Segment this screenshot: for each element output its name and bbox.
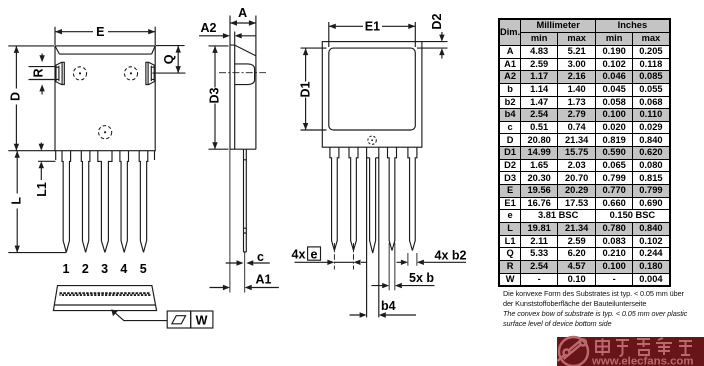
dimension 4x b2 line with arrows [397, 261, 467, 263]
dimension D3 line with arrows [214, 46, 216, 149]
front view pin 5 [139, 151, 148, 253]
dimension table [498, 18, 671, 287]
dimension L1 arrows [40, 143, 42, 181]
front view right mounting tab [146, 62, 154, 84]
back view pin 1 [330, 147, 339, 250]
back view pin 5 [408, 147, 417, 250]
front view top inner edge [55, 46, 155, 54]
back view bottom hole (dashed circle) [368, 136, 376, 144]
dimension Q line with arrows [177, 46, 179, 74]
dimension L1 extension line [38, 160, 56, 162]
side view left extension line [229, 149, 231, 292]
pin 2 centerline [353, 243, 355, 270]
front view pin 4 [120, 151, 129, 253]
dimension L bottom extension line [8, 252, 66, 254]
dimension D2 arrows [441, 32, 443, 59]
dimension A1 line with arrows [210, 287, 279, 289]
front view right hole (dashed circle) [124, 67, 137, 80]
front view body outline [55, 46, 155, 151]
front view left hole (dashed circle) [73, 67, 86, 80]
dimension A line with arrows [230, 22, 256, 24]
dimension E line with arrows [55, 31, 155, 33]
watermark chinese text (pseudo glyphs) [596, 338, 692, 356]
dimension D2 extension lines [417, 42, 448, 49]
pin 4 b extension lines [389, 243, 395, 290]
watermark logo circle [558, 337, 589, 366]
back view body outline [322, 42, 422, 148]
back view pin 2 [349, 147, 358, 250]
dimension 5x b line with arrows [371, 285, 434, 287]
dimension e line with arrows [295, 261, 367, 263]
dimension D3 extension lines [209, 46, 229, 149]
svg-text:www.elecfans.com: www.elecfans.com [591, 356, 694, 366]
side view pin [244, 149, 247, 252]
dimension D line with arrows [15, 46, 17, 151]
notes text [503, 289, 687, 329]
side view tab centerline [219, 72, 266, 74]
flatness leader line with arrow [112, 310, 167, 320]
front view left mounting tab [56, 62, 64, 84]
pin 1 centerline [333, 243, 335, 270]
front view pin 2 [81, 151, 90, 253]
dimension b4 line with arrows [350, 314, 417, 316]
front view bottom hole (dashed circle) [99, 126, 112, 139]
flatness parallelogram symbol [172, 316, 186, 324]
dimension A extension lines [230, 16, 256, 56]
elecfans watermark [557, 337, 704, 366]
pin 5 b2 extension lines [408, 253, 417, 266]
dimension D1 line with arrows [305, 48, 307, 130]
front view pin 3 [98, 151, 112, 253]
dimension Q extension lines [152, 46, 185, 74]
dimension E extension lines [55, 27, 155, 45]
flatness symbol flag box [167, 311, 191, 328]
dimension A2 line with arrows [199, 32, 256, 46]
dimension E1 extension lines [329, 22, 416, 47]
dimension E1 line with arrows [329, 25, 416, 27]
dimension D extension lines [8, 46, 55, 151]
front view pin 1 [62, 151, 71, 253]
side view tab bump [235, 64, 255, 85]
dimension D1 extension lines [301, 48, 327, 130]
side view pin extension line [244, 252, 246, 292]
dimension R extension lines [29, 67, 55, 80]
bottom view substrate band [60, 292, 151, 294]
front view body bottom corner stubs [56, 151, 155, 160]
back view pin 4 [388, 147, 397, 250]
side view body outline [230, 45, 256, 149]
dimension R arrows [41, 54, 43, 95]
dimension c line with arrows [226, 262, 270, 264]
bottom view outline [53, 286, 156, 311]
dimension L line with arrows [16, 151, 18, 253]
back view substrate rounded rect [329, 48, 416, 130]
back view pin 3 (wide) with b4 extension lines [367, 147, 379, 317]
